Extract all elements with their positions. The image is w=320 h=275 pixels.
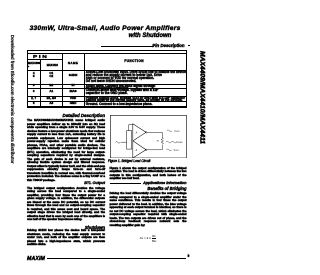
table top border outer line [27,50,187,51]
pin number col2 row5 [41,102,62,105]
pin number col1 row1 line2 [27,75,40,78]
pin description table [27,50,187,107]
waveform label VLOAD [166,141,176,143]
header sub label col1 line 1 [28,62,40,65]
function row4 line1 [86,97,185,100]
function row1 line1 [86,71,186,74]
pin name col3 row4 [62,97,84,100]
column divider col1/col2 [39,59,42,107]
wire source to input network [121,141,127,143]
pin name col3 row5 [62,102,84,105]
svg-text:VOUT-: VOUT- [174,150,180,152]
heading: Shutdown [27,225,105,230]
table top border inner line [27,53,187,54]
header line under PIN [27,58,62,61]
pin number col2 row1 line1 [41,72,62,75]
svg-text:VOUT+: VOUT+ [174,130,180,132]
heading: Detailed Description [27,113,105,118]
svg-text:RL: RL [157,140,160,142]
pin number col2 row2 [41,84,62,87]
pin number col1 row1 line1 [27,72,40,75]
pin name col3 row3 [62,90,84,93]
op-amp A1 (top) [133,123,146,140]
sidebar part numbers (vertical) [198,51,205,144]
row divider 3 [27,95,187,98]
title line 2 [94,33,206,39]
op-amp A2 (bottom) [133,140,146,157]
svg-text:A: A [135,149,138,152]
lead line before Pin Description [101,45,154,48]
output node circle bottom [145,148,147,150]
figure frame [110,115,186,158]
header bottom line [27,70,187,71]
small mark right of Pin Description [188,45,191,47]
row divider 1 [27,83,187,86]
heading: BTL Output [27,181,105,185]
wire top output [147,132,162,137]
heading: Benefits of Bridged Outputs [110,186,187,191]
pin number col1 row3 [27,90,40,93]
footer rule [47,257,186,260]
svg-text:A: A [135,131,138,134]
header label PIN [33,55,48,58]
sine source squiggle [116,141,120,143]
heading: Pin Description [118,43,185,48]
header label FUNCTION [84,60,184,63]
pin number col1 row4 [27,97,40,100]
function row3 line2 [86,92,128,95]
function row4 line2 [86,99,183,102]
pin name col3 row1 [62,74,84,77]
left margin watermark (vertical) [10,35,15,164]
pin number col1 row2 [27,84,40,87]
title line 1 [27,25,183,32]
waveform label VOUT- [166,149,171,151]
header sub label col2 [47,64,58,67]
input network box [127,130,132,148]
function row2 line1 [86,85,156,88]
heading: Applications Information [110,181,187,185]
right column: figure [110,115,187,158]
row divider 2 [27,87,187,90]
lead line before Applications Information [110,182,141,185]
page number [188,255,190,258]
equation [110,234,187,243]
figure caption [108,160,188,163]
pin number col2 row3 [41,90,62,93]
svg-text:VLOAD: VLOAD [176,141,183,144]
pin number col1 row5 [27,102,40,105]
function row3 line1 [86,89,159,92]
header label NAME [62,62,84,65]
table left border [26,50,29,107]
table right border [185,50,188,107]
feedback stub above input box [128,124,130,130]
function row2 line2 [86,87,129,90]
function row1 line4 [86,80,136,83]
output node circle top [145,131,147,133]
row divider 4 [27,100,187,103]
column divider col2/col3 [61,53,64,107]
load resistor RL [161,137,163,144]
pin name col3 row2 [62,84,84,87]
function row5 [86,103,153,106]
function row1 line2 [86,74,162,77]
pin number col2 row1 line2 [41,75,62,78]
footer: MAXIM logo [27,256,45,262]
waveform label VOUT+ [167,129,172,131]
header sub label col1 line 2 [28,66,29,69]
right column text [110,167,187,181]
table bottom border [27,106,187,108]
column divider col3/col4 [83,53,86,107]
wire bottom output [147,144,162,149]
pin number col2 row4 [41,97,62,100]
function row1 line3 [86,77,154,80]
